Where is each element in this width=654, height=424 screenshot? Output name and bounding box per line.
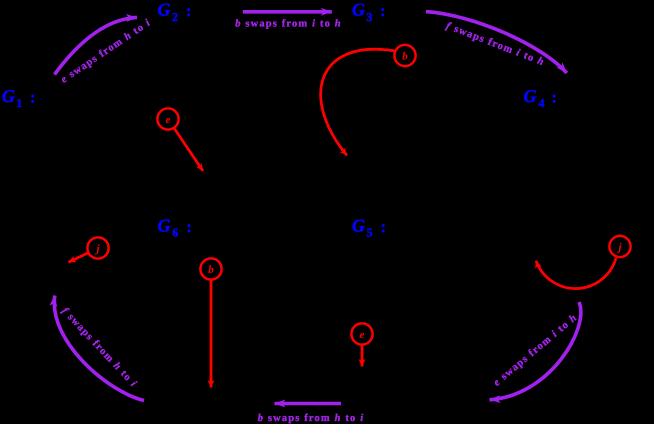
label f swaps from i to h [444, 21, 546, 69]
edge label circle b (lower) [200, 258, 221, 279]
svg-text:G: G [158, 215, 171, 235]
svg-text:b swaps from h to i: b swaps from h to i [258, 413, 365, 424]
svg-text:b: b [208, 264, 214, 276]
svg-text:5: 5 [367, 226, 373, 240]
wire arc G3 to G4 [426, 12, 567, 73]
edge label circle j (left) [87, 237, 108, 258]
svg-text:e: e [166, 114, 171, 126]
node G6 [158, 215, 192, 239]
node G4 [524, 86, 558, 110]
pointer arc from right circled j into G5 graph [536, 258, 616, 289]
svg-text:4: 4 [539, 96, 545, 110]
edge label circle e (lower) [351, 323, 372, 344]
edge label circle b (upper) [394, 45, 415, 66]
wire arrow G5 to G6 [275, 402, 342, 406]
svg-text:1: 1 [16, 96, 22, 110]
svg-text:G: G [352, 0, 365, 20]
edge label circle e (upper) [157, 108, 178, 129]
svg-text:2: 2 [172, 10, 178, 24]
svg-text:G: G [524, 86, 537, 106]
svg-text:b swaps from i to h: b swaps from i to h [235, 18, 342, 29]
wire arrow G2 to G3 [243, 10, 332, 14]
pointer arc from circled b into G5 graph [321, 49, 395, 155]
pointer line from lower circled e down into G5 graph [361, 345, 364, 367]
svg-text::: : [186, 217, 192, 236]
wire arc G6 to G1 [54, 296, 144, 401]
svg-text::: : [30, 88, 36, 107]
wire arc G4 to G5 [490, 302, 581, 400]
pointer line from left circled j into G6 graph [69, 253, 89, 263]
svg-text::: : [186, 1, 192, 20]
svg-text::: : [552, 88, 558, 107]
svg-text:6: 6 [172, 226, 178, 240]
svg-text:3: 3 [366, 10, 372, 24]
node G5 [352, 215, 386, 239]
svg-text::: : [380, 1, 386, 20]
label e swaps from i to h [492, 312, 580, 389]
label f swaps from h to i [59, 306, 139, 390]
node G1 [2, 86, 36, 110]
label e swaps from h to i [59, 17, 153, 85]
pointer line from circled e into G6 graph [174, 128, 203, 171]
node G3 [352, 0, 386, 24]
svg-text::: : [381, 217, 387, 236]
svg-text:b: b [402, 50, 408, 62]
svg-text:e: e [360, 329, 365, 341]
svg-text:G: G [352, 215, 365, 235]
node G2 [158, 0, 192, 24]
edge label circle j (right) [609, 236, 630, 257]
svg-text:G: G [158, 0, 171, 20]
svg-text:G: G [2, 86, 15, 106]
wire arc G1 to G2 [55, 17, 138, 74]
pointer line from lower circled b down into G6 graph [210, 280, 213, 388]
